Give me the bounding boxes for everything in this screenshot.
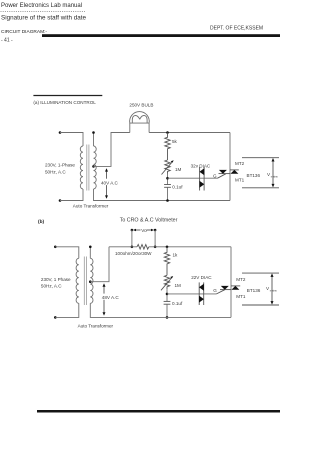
load resistor R2 100ohm [137, 245, 149, 250]
node: chain bottom c2 [166, 316, 169, 319]
svg-text:(b): (b) [38, 219, 45, 225]
gate wire [168, 177, 218, 179]
svg-text:mains: mains [270, 288, 278, 292]
potentiometer VR2 1M [164, 275, 169, 289]
svg-text:250V BULB: 250V BULB [129, 102, 153, 107]
transformer T1 primary winding [80, 146, 83, 189]
svg-text:48V A.C: 48V A.C [102, 295, 120, 300]
node: chain top [166, 131, 169, 134]
bottom wire left c2 [55, 303, 79, 317]
svg-text:CIRCUIT DIAGRAM:-: CIRCUIT DIAGRAM:- [1, 29, 47, 35]
transformer T2 secondary bottom lead / bottom wire [90, 303, 231, 317]
VR2 wiper arrow [161, 277, 172, 290]
svg-text:MT1: MT1 [236, 294, 246, 299]
svg-text:Signature of the staff with da: Signature of the staff with date [1, 15, 86, 22]
triac Q2 right triangle [231, 286, 239, 290]
svg-text:230V, 1 Phase: 230V, 1 Phase [41, 277, 71, 282]
svg-text:5k: 5k [172, 139, 178, 144]
Vo arrow right [147, 229, 154, 231]
triac Q2 left triangle [221, 286, 229, 290]
svg-text:40V A.C: 40V A.C [101, 180, 119, 185]
svg-text:Auto Transformer: Auto Transformer [78, 323, 114, 328]
triac Q1 left triangle [219, 170, 227, 174]
svg-text:- 41 -: - 41 - [1, 38, 13, 44]
wire cap to bottom c2 [166, 304, 168, 317]
section (a) overline [33, 95, 102, 97]
source terminal bottom-left c2 [54, 316, 57, 319]
svg-text:Power Electronics Lab manual: Power Electronics Lab manual [1, 3, 82, 9]
svg-text:Vo: Vo [141, 228, 147, 233]
wire top left [60, 133, 83, 147]
svg-text:(a) ILLUMINATION CONTROL: (a) ILLUMINATION CONTROL [33, 100, 96, 105]
tap wire to lamp rail [94, 133, 130, 167]
diac D2 upper triangle [199, 284, 204, 291]
transformer T1 secondary top lead [93, 133, 95, 147]
transformer T2 core [83, 257, 85, 306]
node: T1 tap [92, 165, 95, 168]
triac Q2 MT2 bar [231, 285, 240, 287]
tap wire to top rail c2 [90, 247, 109, 282]
diac D2 rails [198, 282, 200, 305]
wire cap to bottom [167, 187, 169, 200]
svg-text:BT136: BT136 [247, 288, 261, 293]
gate diagonal into triac [218, 174, 226, 178]
header dotted separator [1, 10, 86, 12]
gate diagonal c2 [217, 290, 225, 294]
top rail right segment [149, 246, 231, 248]
lamp legs [129, 123, 131, 132]
node: T2 secondary top [89, 246, 92, 249]
Vo measurement node right [154, 229, 157, 232]
svg-text:G: G [213, 174, 217, 179]
svg-text:To CRO & A.C Voltmeter: To CRO & A.C Voltmeter [120, 218, 178, 224]
svg-text:BT136: BT136 [247, 173, 261, 178]
node: gate junction c2 [166, 293, 169, 296]
transformer T2 secondary winding [90, 258, 93, 303]
triac Q1 right triangle [230, 170, 238, 174]
header thick rule [42, 34, 280, 37]
Vo arrow left [134, 229, 141, 231]
Vmains arrow [272, 160, 274, 187]
Vo drop wires [131, 230, 133, 247]
transformer T1 core [86, 145, 88, 191]
top rail left segment [109, 246, 137, 248]
node: resistor left [131, 246, 134, 249]
lamp filament [132, 116, 147, 124]
right branch vertical c2 [230, 247, 232, 318]
svg-text:mains: mains [271, 174, 279, 178]
source terminal bottom-left [59, 199, 62, 202]
48V output arrow [101, 283, 119, 315]
gate wire c2 [167, 293, 217, 295]
Vo measurement node left [131, 229, 134, 232]
diac D1 upper triangle [199, 168, 204, 175]
svg-text:DEPT. OF ECE,KSSEM: DEPT. OF ECE,KSSEM [210, 26, 263, 32]
resistor R1 5k [165, 133, 170, 161]
node: chain top c2 [166, 246, 169, 249]
transformer T2 primary winding [76, 258, 79, 303]
wire pot to cap c2 [166, 289, 168, 301]
svg-text:MT1: MT1 [235, 178, 245, 183]
wire pot to cap [167, 174, 169, 185]
svg-text:MT2: MT2 [236, 277, 246, 282]
capacitor C1 0.1uf [164, 184, 171, 186]
svg-text:50Hz, A.C: 50Hz, A.C [45, 170, 66, 175]
svg-text:G: G [213, 288, 217, 293]
source terminal top-left [59, 131, 62, 134]
svg-text:1M: 1M [175, 283, 182, 288]
Vmains measurement bars [242, 157, 279, 159]
Vmains bars c2 [242, 272, 279, 274]
node: resistor right [154, 246, 157, 249]
node: gate branch junction [166, 177, 169, 180]
svg-text:230V, 1-Phase: 230V, 1-Phase [45, 163, 75, 168]
VR1 wiper arrow [162, 161, 173, 174]
svg-text:1M: 1M [175, 167, 182, 172]
diac D1 lower triangle [199, 181, 204, 188]
right branch vertical (triac branch) [229, 133, 231, 201]
svg-text:0.1uf: 0.1uf [172, 184, 183, 189]
svg-text:32v DIAC: 32v DIAC [191, 163, 211, 168]
transformer T1 secondary bottom lead / bottom wire [94, 189, 231, 201]
lamp envelope [130, 112, 150, 124]
resistor R3 1k [164, 247, 169, 275]
svg-text:1k: 1k [173, 253, 179, 258]
top wire left c2 [55, 247, 79, 258]
node: chain bottom [166, 199, 169, 202]
triac Q1 MT2 bar [230, 169, 239, 171]
node: T2 tap [89, 280, 92, 283]
potentiometer VR1 1M [165, 160, 170, 174]
source terminal top-left c2 [54, 246, 57, 249]
triac Q2 MT1 bar [220, 289, 231, 291]
svg-text:Auto Transformer: Auto Transformer [73, 204, 109, 209]
footer thick rule [37, 410, 280, 413]
svg-text:22V DIAC: 22V DIAC [191, 275, 212, 280]
triac Q1 MT1 bar [219, 173, 231, 175]
diac D2 lower triangle [199, 296, 204, 303]
svg-text:0.1uf: 0.1uf [172, 301, 183, 306]
svg-text:100ohm/20or30W: 100ohm/20or30W [115, 251, 152, 256]
diac D1 rails [199, 167, 201, 191]
svg-text:MT2: MT2 [235, 161, 245, 166]
40V output arrow [100, 168, 119, 199]
capacitor C2 [164, 300, 171, 302]
wire bottom left [60, 189, 83, 201]
Vmains arrow c2 [271, 275, 273, 303]
transformer T1 secondary winding [94, 146, 97, 189]
node: T1 secondary top [92, 131, 95, 134]
svg-text:50Hz, A.C: 50Hz, A.C [41, 283, 62, 288]
transformer T2 secondary top lead [89, 247, 91, 258]
lamp rail to right corner [149, 132, 230, 134]
